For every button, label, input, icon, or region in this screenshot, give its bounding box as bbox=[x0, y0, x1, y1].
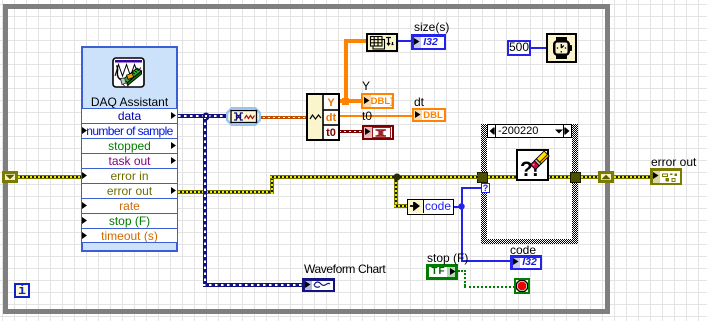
wire: error inside case right bbox=[548, 175, 570, 179]
case structure checkered frame bbox=[481, 124, 579, 244]
wire: I32 from array size to size(s) indicator bbox=[398, 40, 412, 42]
wire: Y array horizontal into array size bbox=[344, 39, 367, 43]
indicator dt DBL bbox=[412, 108, 446, 122]
case bottom border bbox=[481, 239, 578, 244]
wire: error into unbundle bbox=[394, 204, 407, 208]
wire: boolean dotted to conditional terminal bbox=[464, 286, 515, 288]
indicator Y [DBL] bbox=[361, 93, 394, 109]
Convert from Dynamic Data express node bbox=[226, 107, 261, 126]
right shift register bbox=[598, 171, 614, 183]
left shift register bbox=[2, 171, 18, 183]
wire: code to case selector terminal bbox=[461, 187, 481, 189]
row: error in bbox=[82, 168, 177, 183]
control stop (F) TF bbox=[426, 264, 458, 280]
wire: error inside case left bbox=[488, 175, 517, 179]
DAQ Assistant terminal rows bbox=[82, 108, 177, 244]
row: task out bbox=[82, 153, 177, 168]
row: number of sample bbox=[82, 123, 177, 138]
junction square on Y wire bbox=[342, 98, 349, 105]
case structure selector label -200220 bbox=[487, 124, 572, 138]
label Waveform Chart bbox=[304, 263, 385, 275]
label code bbox=[510, 244, 536, 256]
indicator Waveform Chart bbox=[302, 278, 335, 292]
wire: t0 time stamp to indicator bbox=[339, 130, 363, 133]
label dt bbox=[414, 96, 424, 108]
while loop conditional terminal (stop if true) bbox=[514, 278, 530, 294]
Unbundle By Name (code) bbox=[407, 199, 454, 215]
wire: error from case to right shift register bbox=[581, 175, 598, 179]
wire: error in from left shift register to DAQ Assistant bbox=[18, 175, 81, 179]
wire: error from loop to error out indicator bbox=[614, 175, 651, 179]
Clear Errors.vi bbox=[516, 149, 549, 181]
wire: Y array vertical to array size bbox=[344, 40, 348, 100]
Array Size function bbox=[366, 33, 398, 52]
label t0 bbox=[362, 110, 372, 122]
row: timeout (s) bbox=[82, 228, 177, 243]
case selector terminal ? bbox=[481, 183, 490, 193]
label error out bbox=[651, 156, 696, 168]
label stop (F) bbox=[427, 252, 468, 264]
wire: waveform from convert node to get waveform components bbox=[258, 116, 307, 119]
DAQ Assistant title bbox=[83, 96, 176, 108]
row: stopped bbox=[82, 138, 177, 153]
row: stop (F) bbox=[82, 213, 177, 228]
indicator code I32 bbox=[510, 255, 542, 270]
while loop iteration terminal i bbox=[14, 283, 30, 298]
row: rate bbox=[82, 198, 177, 213]
wire: Y array thick orange to DBL array indicator bbox=[339, 99, 361, 103]
wire: code vertical bbox=[461, 187, 463, 262]
junction dot on code wire bbox=[458, 203, 465, 210]
wire: error out vertical step bbox=[270, 175, 274, 194]
label Y bbox=[362, 80, 370, 92]
row: error out bbox=[82, 183, 177, 198]
wire: dynamic data vertical branch to chart bbox=[203, 118, 207, 287]
wire: code to I32 code indicator bbox=[461, 260, 511, 262]
indicator size(s) I32 bbox=[411, 34, 446, 50]
DAQ Assistant express VI bbox=[81, 46, 178, 252]
Wait (ms) function bbox=[546, 33, 577, 63]
label size(s) bbox=[414, 21, 449, 33]
case structure right tunnel (error) bbox=[570, 172, 581, 183]
Get Waveform Components function bbox=[306, 93, 340, 141]
wire: dt scalar orange to DBL indicator bbox=[339, 115, 413, 117]
wire: dynamic data horizontal to waveform chart bbox=[203, 283, 302, 287]
DAQ Assistant icon bbox=[112, 57, 146, 89]
wire: 500 to wait ms bbox=[530, 47, 546, 49]
case structure left tunnel (error) bbox=[477, 172, 488, 183]
junction on dynamic data wire bbox=[202, 112, 210, 121]
wire: boolean dotted vertical bbox=[464, 270, 466, 286]
case right border bbox=[572, 124, 578, 244]
wire: DAQ error out horizontal segment bbox=[178, 190, 274, 194]
row: data bbox=[82, 108, 177, 123]
wire: code from unbundle to junction bbox=[453, 206, 462, 208]
wire: dynamic data from DAQ data output bbox=[178, 114, 228, 118]
wire: error branch vertical to unbundle bbox=[394, 175, 398, 208]
indicator t0 time stamp bbox=[362, 125, 394, 140]
indicator error out cluster bbox=[650, 168, 682, 185]
wire: boolean dotted from TF bbox=[458, 270, 466, 272]
junction on error wire bbox=[393, 173, 401, 181]
numeric constant 500 bbox=[507, 40, 531, 56]
wire: error out to case structure bbox=[270, 175, 478, 179]
case left border bbox=[481, 124, 487, 244]
